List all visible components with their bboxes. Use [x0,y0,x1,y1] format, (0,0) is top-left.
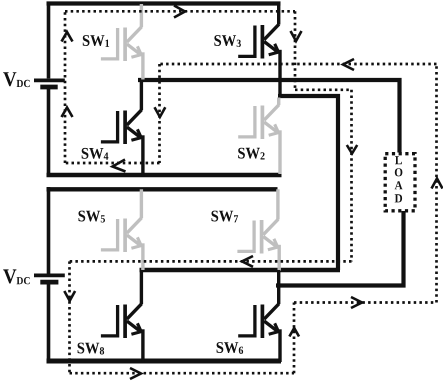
arrow down on long right vertical [347,145,357,154]
wire: left bus upper segment [47,2,51,79]
transistor SW2 gray IGBT [238,105,279,139]
arrow down on SW4 right vertical [155,107,166,117]
label L [395,156,402,164]
arrow down on SW3 vertical [291,31,302,41]
label SW6 [217,342,244,354]
wire: SW2 emitter [278,130,281,174]
dotted wire: bottom bridge upper horizontal [70,260,352,263]
wire: SW7 emitter [278,245,281,271]
dotted wire: bottom horizontal [70,372,295,375]
label O [395,168,403,176]
arrow up on left vertical (lower) [62,108,73,118]
transistor SW8 (black) collector wire [140,270,143,304]
transistor SW6 black IGBT [238,304,279,338]
label SW4 [82,148,109,160]
wire: SW1 emitter [141,52,144,79]
transistor SW7 gray IGBT [237,219,278,253]
label D [395,194,402,202]
wire: top bus [47,1,281,5]
transistor SW3 black IGBT [238,24,279,58]
battery VDC2 short plate [40,280,58,285]
dotted wire: upper horizontal return [160,63,437,66]
dotted wire: lower right horizontal [294,301,437,304]
battery VDC1 short plate [40,85,57,90]
wire: left bus lower segment 2 [47,284,51,362]
transistor SW3 (black) collector wire [277,4,280,25]
arrow down on bottom-left vertical [64,291,75,301]
arrow up on SW6 vertical [289,328,299,337]
transistor SW1 gray IGBT [101,27,142,61]
dotted wire: long vertical down to bottom bridge [350,90,353,262]
label SW8 [78,343,105,355]
dotted wire: mid horizontal right [295,88,352,91]
wire: bottom bus of top bridge [47,173,282,178]
label VDC2 [3,269,30,284]
wire: node line bottom-left leg [140,268,341,272]
wire: node line A to load top [138,80,400,153]
battery VDC2 long plate [34,273,65,277]
wire: SW2 node line to cascade vertical [278,96,338,270]
transistor SW1 (gray) collector wire [140,4,143,27]
transistor SW2 (gray) collector wire [277,98,280,106]
label A [395,181,403,189]
arrow left on bottom bridge upper horizontal [242,256,253,267]
wire: SW4 emitter [141,135,144,176]
transistor SW8 black IGBT [101,304,142,338]
load box dotted border [385,154,415,211]
dotted wire: SW4 right vertical [158,64,161,163]
label SW1 [83,35,109,47]
dotted wire: top horizontal [65,10,295,13]
wire: SW6 emitter [278,329,281,362]
dotted wire: left vertical top bridge [64,11,67,163]
arrow right on bottom horizontal [130,368,141,379]
battery VDC1 long plate [34,79,65,83]
arrow left on upper return horizontal [343,59,354,70]
label VDC1 [3,72,30,87]
arrow right on top horizontal [174,6,185,18]
label SW2 [238,148,264,160]
wire: left bus upper segment 2 [47,187,51,274]
label SW7 [212,211,239,223]
label SW5 [79,211,106,223]
wire: bottom bus of bottom bridge [47,359,282,364]
wire: node line bottom-right leg to load bottom [276,211,404,286]
transistor SW5 (gray) collector wire [140,189,143,218]
arrow up on far right vertical [432,179,443,189]
dotted wire: SW4 bottom horizontal [65,162,160,165]
wire: SW8 emitter [141,329,144,362]
wire: SW5 emitter [141,243,144,270]
wire: SW3 emitter [278,50,281,98]
arrow up on left vertical (upper) [62,32,73,42]
transistor SW7 (gray) collector wire [276,189,279,219]
dotted wire: far right vertical [435,64,438,303]
dotted wire: left vertical bottom bridge [68,261,71,373]
arrow hook left on SW4 bottom horizontal [113,160,126,172]
transistor SW4 (black) collector wire [140,80,143,110]
wire: left bus lower segment [47,89,51,177]
wire: top bus of bottom bridge [47,187,278,191]
label SW3 [214,35,241,47]
dotted wire: SW6 right vertical up [293,303,296,374]
transistor SW6 (black) collector wire [277,270,280,304]
transistor SW4 black IGBT [101,110,142,144]
dotted wire: SW3 right vertical [294,11,297,90]
transistor SW5 gray IGBT [101,218,142,252]
arrow right on lower right horizontal [351,297,362,308]
